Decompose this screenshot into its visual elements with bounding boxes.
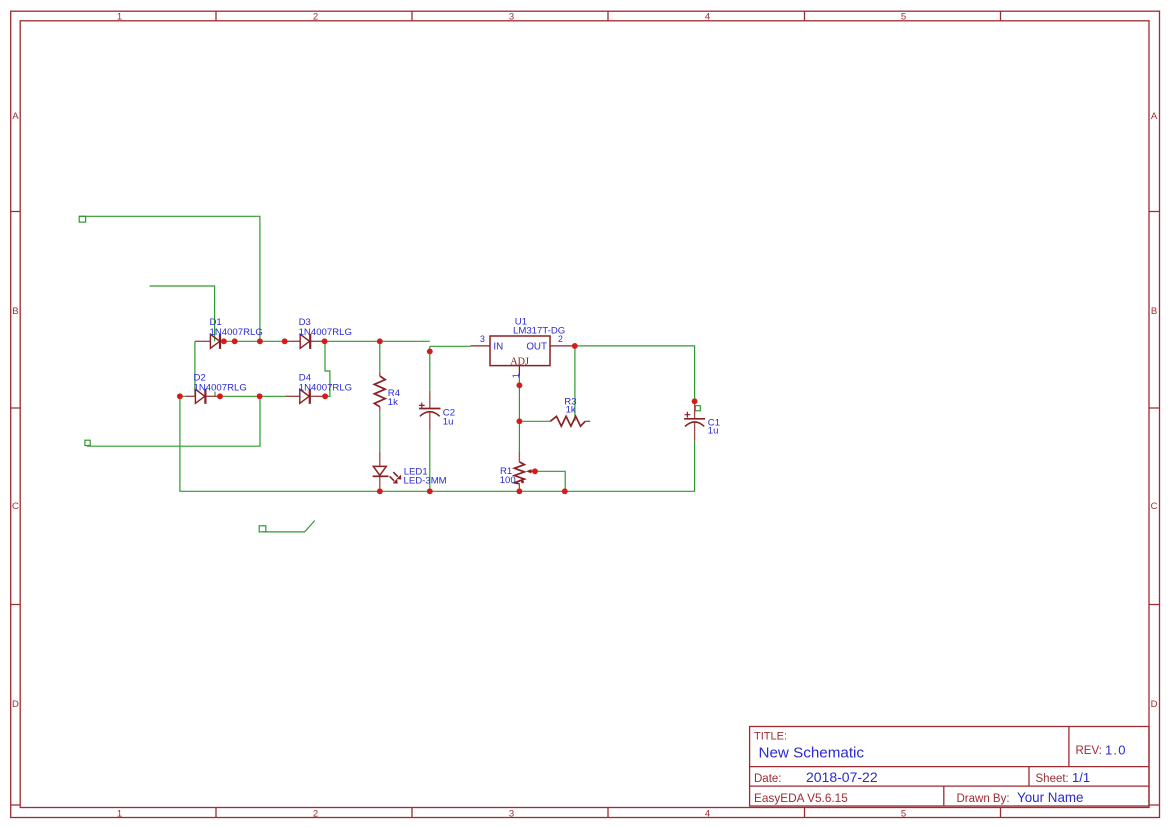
svg-text:1/1: 1/1 (1072, 770, 1090, 785)
junction (574.8,345.9) (572, 343, 578, 349)
junction (429.8,351.4) (427, 348, 433, 354)
diode D3 (285, 317, 352, 349)
svg-text:4: 4 (705, 808, 710, 819)
capacitor C1 (684, 404, 720, 441)
junction (234.7,341.3) (232, 338, 238, 344)
LED LED1 (373, 452, 447, 492)
op-amp U1 regulator LM317 (471, 317, 575, 379)
wire D3-D4 cathode link (325, 341, 330, 396)
wire R1 wiper (535, 471, 565, 491)
junction (325.1,396.3) (322, 393, 328, 399)
wire C2 branch (429, 346, 431, 491)
svg-text:Sheet:: Sheet: (1036, 773, 1069, 785)
svg-text:B: B (1151, 306, 1157, 317)
svg-text:1: 1 (117, 11, 122, 22)
svg-text:1.0: 1.0 (1105, 743, 1127, 758)
svg-text:ADJ: ADJ (510, 356, 529, 367)
svg-text:IN: IN (493, 342, 503, 353)
svg-text:1: 1 (511, 373, 521, 378)
junction (259.9,341.3) (257, 338, 263, 344)
junction dots (177, 338, 698, 494)
title block (750, 727, 1149, 807)
svg-text:3: 3 (509, 11, 514, 22)
diode D4 (285, 373, 352, 404)
svg-text:LED-3MM: LED-3MM (404, 475, 447, 486)
svg-text:A: A (12, 111, 19, 122)
svg-text:1: 1 (117, 808, 122, 819)
svg-text:100: 100 (500, 475, 516, 486)
junction (564.8,491.3) (562, 488, 568, 494)
svg-text:A: A (1151, 111, 1158, 122)
wire OUT to C1 (575, 346, 701, 411)
junction (519.4,385.3) (516, 382, 522, 388)
resistor R4 (374, 372, 400, 411)
junction (179.9,396.3) (177, 393, 183, 399)
svg-text:OUT: OUT (526, 342, 547, 353)
junction (324.6,341.3) (322, 338, 328, 344)
svg-text:New Schematic: New Schematic (759, 745, 865, 762)
svg-text:1N4007RLG: 1N4007RLG (299, 383, 352, 394)
svg-text:1N4007RLG: 1N4007RLG (299, 327, 352, 338)
svg-text:Your Name: Your Name (1017, 790, 1084, 805)
svg-text:1u: 1u (443, 416, 454, 427)
wire stub upper (150, 286, 215, 341)
junction (519.4,491.3) (516, 488, 522, 494)
svg-text:4: 4 (705, 11, 710, 22)
wire D1 anode to D2 anode (194, 341, 196, 396)
junction (379.8,491.3) (377, 488, 383, 494)
wire R3 left (519, 420, 550, 422)
resistor R3 (550, 397, 585, 427)
svg-text:REV:: REV: (1076, 745, 1102, 757)
svg-text:1N4007RLG: 1N4007RLG (194, 383, 247, 394)
svg-text:B: B (12, 306, 18, 317)
wire ADJ net (518, 376, 520, 452)
wire bottom rail (180, 396, 695, 491)
svg-text:2018-07-22: 2018-07-22 (806, 769, 878, 785)
svg-text:1k: 1k (388, 397, 398, 408)
svg-text:C: C (12, 501, 19, 512)
svg-text:2: 2 (313, 11, 318, 22)
svg-text:3: 3 (480, 334, 485, 344)
svg-text:C: C (1151, 501, 1158, 512)
junction (519.4,421.3) (516, 418, 522, 424)
junction (429.8,491.3) (427, 488, 433, 494)
wire open switch lead (259, 521, 315, 532)
wire AC input lower (85, 396, 260, 446)
junction (220,396.3) (217, 393, 223, 399)
wire rectifier bottom row (180, 392, 285, 397)
svg-text:EasyEDA V5.6.15: EasyEDA V5.6.15 (754, 791, 848, 805)
junction (535,471.3) (532, 468, 538, 474)
wire R3 right stub (585, 420, 590, 422)
potentiometer R1 (500, 452, 535, 492)
junction (379.8,341.3) (377, 338, 383, 344)
svg-text:1u: 1u (708, 426, 719, 437)
junction (694.6,401.3) (692, 398, 698, 404)
wire U1 input (430, 345, 471, 347)
svg-text:5: 5 (901, 808, 906, 819)
wire R4 branch (379, 341, 381, 451)
wire OUT to R3 (574, 346, 576, 421)
junction (284.7,341.3) (282, 338, 288, 344)
capacitor C2 (419, 391, 455, 431)
svg-text:5: 5 (901, 11, 906, 22)
wire rectifier top row (221, 340, 430, 342)
diode D2 (186, 373, 247, 404)
svg-text:D: D (12, 699, 19, 710)
svg-text:2: 2 (313, 808, 318, 819)
junction (259.6,396.3) (257, 393, 263, 399)
diode D1 (195, 317, 263, 349)
svg-text:1N4007RLG: 1N4007RLG (210, 327, 263, 338)
svg-text:Drawn By:: Drawn By: (957, 793, 1010, 805)
svg-text:D: D (1151, 699, 1158, 710)
svg-text:3: 3 (509, 808, 514, 819)
wire top-left AC input L (79, 216, 260, 341)
svg-text:TITLE:: TITLE: (754, 731, 787, 743)
svg-text:2: 2 (558, 334, 563, 344)
svg-text:Date:: Date: (754, 773, 782, 785)
svg-text:1k: 1k (566, 404, 576, 415)
junction (223.9,341.3) (221, 338, 227, 344)
